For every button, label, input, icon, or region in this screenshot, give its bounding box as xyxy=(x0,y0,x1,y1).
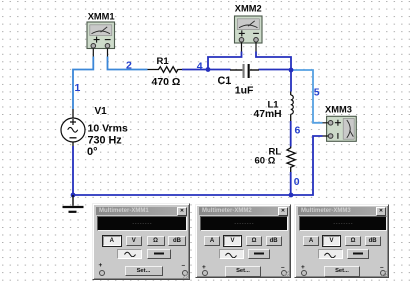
svg-text:XMM2: XMM2 xyxy=(235,4,262,14)
svg-text:10 Vrms: 10 Vrms xyxy=(88,123,128,135)
node label 1 xyxy=(75,82,81,94)
label XMM3 xyxy=(325,105,352,115)
label XMM1 xyxy=(88,12,115,22)
svg-text:2: 2 xyxy=(126,59,132,71)
svg-text:60 Ω: 60 Ω xyxy=(255,156,276,167)
instrument panel Multimeter-XMM3 xyxy=(294,204,389,278)
instrument panel Multimeter-XMM2 xyxy=(195,204,291,278)
wire node6: between L1 and RL xyxy=(290,121,292,147)
wire node0: V1 minus, bottom rail, XMM3 minus branch xyxy=(73,136,323,195)
svg-text:1: 1 xyxy=(75,82,81,94)
svg-text:R1: R1 xyxy=(157,56,170,67)
svg-text:V1: V1 xyxy=(95,106,108,117)
wire node1: XMM1 minus terminal down-left to V1 plus xyxy=(73,57,93,110)
inductor L1 xyxy=(291,92,294,122)
ground xyxy=(63,195,84,212)
multimeter XMM1 xyxy=(87,22,115,57)
svg-text:0°: 0° xyxy=(87,146,98,158)
node label 6 xyxy=(295,125,301,137)
svg-text:47mH: 47mH xyxy=(254,109,282,120)
label RL xyxy=(269,147,282,158)
instrument panel Multimeter-XMM1 xyxy=(92,203,190,280)
wire node5 light segment: junction right then down to XMM3 plus xyxy=(291,70,323,123)
svg-text:4: 4 xyxy=(197,60,203,72)
node label 4 xyxy=(197,60,203,72)
value 1uF xyxy=(235,85,254,97)
svg-text:6: 6 xyxy=(295,125,301,137)
node label 0 xyxy=(294,176,300,188)
svg-text:C1: C1 xyxy=(218,75,232,87)
multimeter XMM2 xyxy=(235,16,263,52)
svg-text:XMM1: XMM1 xyxy=(88,12,115,22)
wire node5 dark segments: C1 right to junction, XMM2 right branch xyxy=(256,52,291,92)
capacitor C1 xyxy=(230,64,259,78)
value 60 ohm xyxy=(255,156,276,167)
wire node2: XMM1 plus terminal down then right to R1 xyxy=(108,57,148,70)
resistor R1 xyxy=(148,67,183,73)
value 0 deg xyxy=(87,146,98,158)
node label 5 xyxy=(314,86,320,98)
label R1 xyxy=(157,56,170,67)
junction node 0 left xyxy=(71,193,76,198)
multimeter XMM3 (rotated) xyxy=(323,116,357,141)
value 730 Hz xyxy=(88,135,123,147)
svg-text:730 Hz: 730 Hz xyxy=(88,135,123,147)
wire node4: R1 to C1 with XMM2 left branch xyxy=(182,52,242,70)
label V1 xyxy=(95,106,108,117)
resistor RL xyxy=(287,147,295,173)
label XMM2 xyxy=(235,4,262,14)
junction node 4 xyxy=(206,67,211,72)
junction node 0 right xyxy=(289,193,294,198)
node label 2 xyxy=(126,59,132,71)
svg-text:0: 0 xyxy=(294,176,300,188)
value 10 Vrms xyxy=(88,123,128,135)
svg-text:5: 5 xyxy=(314,86,320,98)
source V1 xyxy=(61,109,85,146)
value 470 ohm xyxy=(152,76,181,88)
value 47mH xyxy=(254,109,282,120)
junction node 5 xyxy=(289,68,294,73)
svg-text:XMM3: XMM3 xyxy=(325,105,352,115)
label C1 xyxy=(218,75,232,87)
svg-text:1uF: 1uF xyxy=(235,85,254,97)
label L1 xyxy=(268,100,280,111)
svg-text:470 Ω: 470 Ω xyxy=(152,76,181,88)
